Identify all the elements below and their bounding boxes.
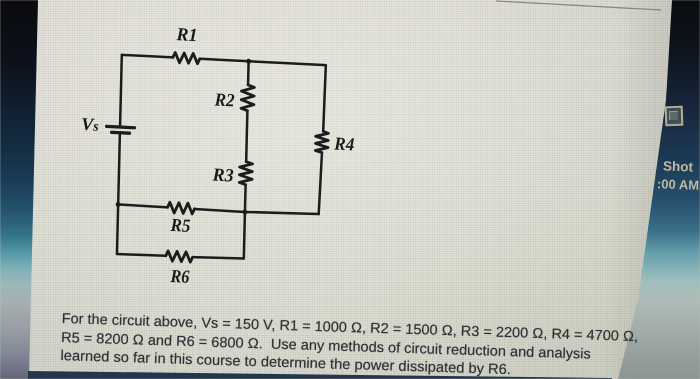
wire R6 row [117, 253, 166, 256]
wire bottom left (junction to R5) [118, 204, 167, 207]
wire middle lower (R3 to bottom) [244, 185, 246, 259]
svg-text:R6: R6 [169, 267, 190, 288]
screenshot icon on desktop [665, 106, 684, 127]
desktop background right of page [600, 0, 700, 379]
resistor R2 [241, 85, 254, 111]
wire top (left corner to R1) [122, 55, 173, 58]
problem statement text [60, 310, 681, 379]
wire right upper (corner to R4) [323, 65, 326, 131]
resistor R4 [315, 131, 328, 153]
resistor R6 [166, 251, 193, 262]
svg-text:R2: R2 [213, 90, 234, 111]
wire R6 to middle vertical [193, 256, 244, 260]
thin line top right [496, 0, 662, 12]
node middle-bottom junction [242, 209, 247, 214]
wire right lower (R4 to bottom wire) [319, 153, 322, 215]
wire bottom (R5 to middle junction and right branch) [195, 208, 319, 216]
desktop label text 'Shot' [663, 158, 694, 174]
svg-text:R1: R1 [175, 25, 197, 46]
svg-text:R4: R4 [333, 134, 354, 155]
wire middle between R2 and R3 [246, 111, 247, 162]
wire left upper (corner to battery) [120, 55, 122, 125]
node left junction [116, 202, 121, 207]
resistor R3 [239, 161, 252, 185]
desktop background left band [0, 0, 40, 379]
svg-text:R3: R3 [211, 165, 233, 186]
resistor R1 [173, 52, 200, 63]
svg-text:Vs: Vs [81, 114, 99, 135]
desktop label text '00 AM' [657, 176, 700, 192]
wire left lower (battery to bottom) [118, 134, 120, 204]
wire left R6 drop [117, 204, 118, 254]
battery Vs [106, 126, 134, 133]
svg-text:R5: R5 [169, 216, 190, 237]
resistor R5 [167, 202, 194, 214]
wire top (R1 to right corner) [200, 59, 326, 65]
node top junction [246, 59, 251, 64]
wire middle upper (junction to R2) [247, 61, 250, 85]
